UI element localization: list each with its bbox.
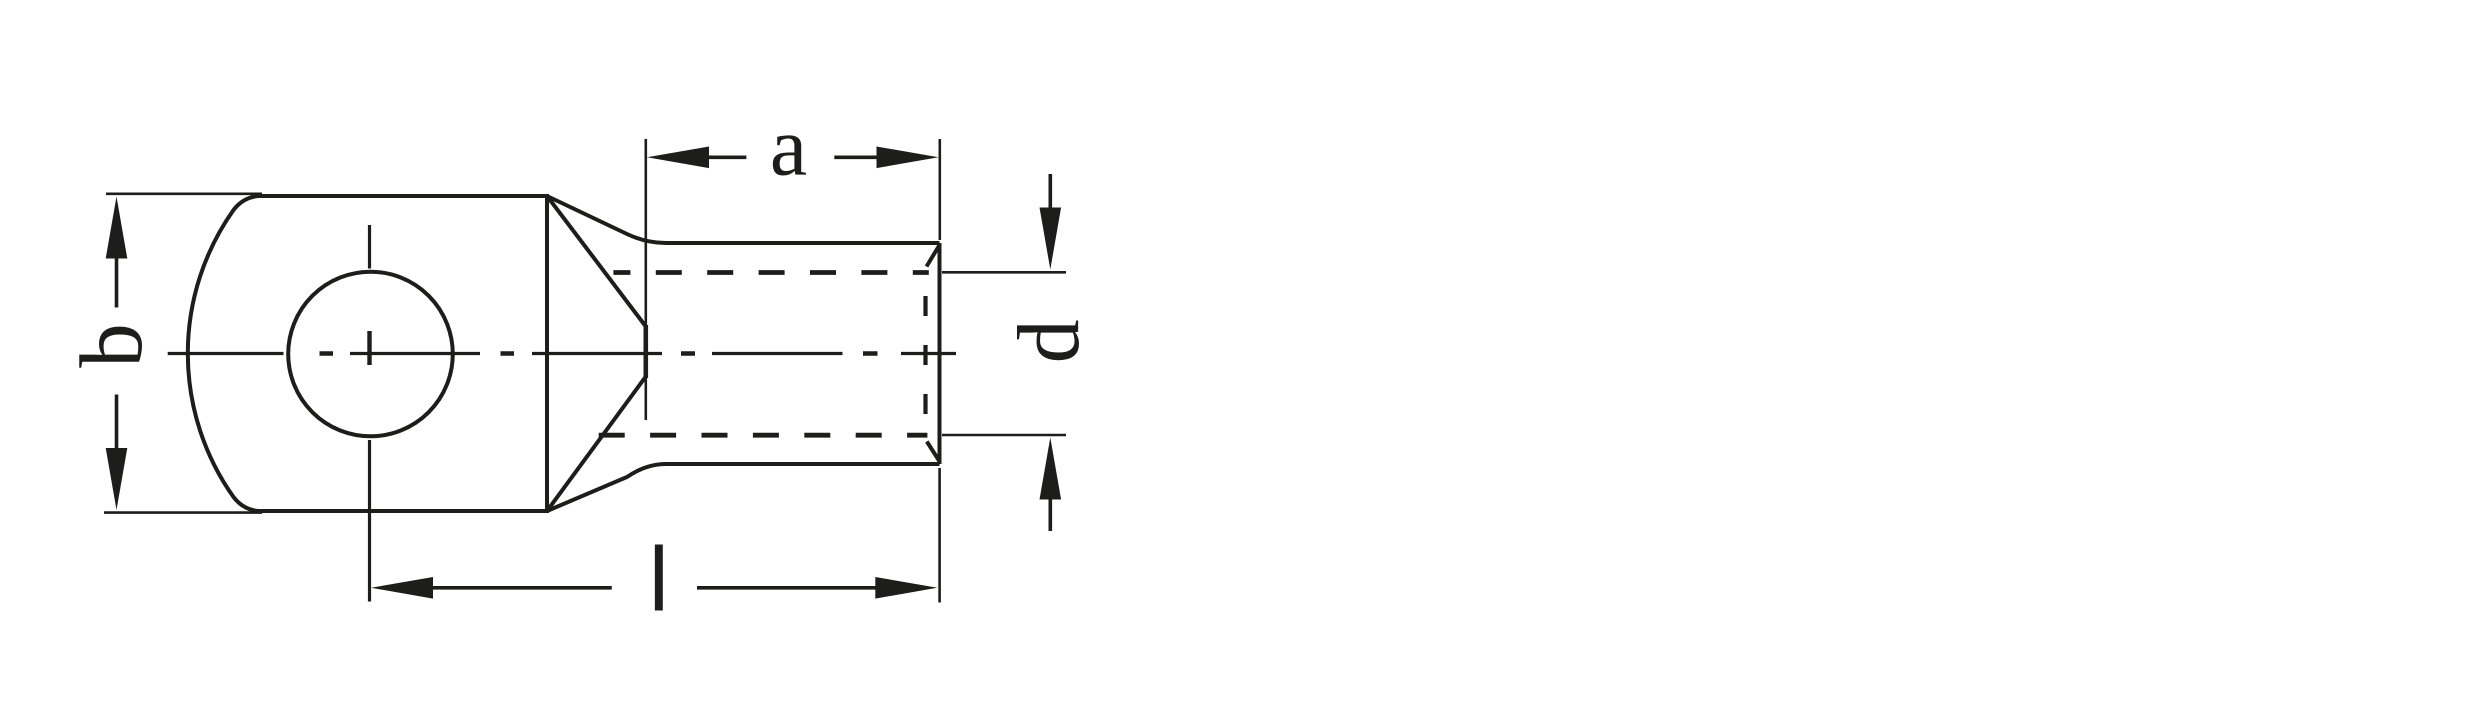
dimension l line right bbox=[697, 586, 877, 590]
centerline horizontal long dashes bbox=[168, 352, 956, 355]
dimension d arrow top shaft bbox=[1049, 174, 1053, 209]
centerline vertical through hole bbox=[368, 225, 371, 602]
dimension b line upper bbox=[115, 257, 119, 308]
centerline horizontal short dashes bbox=[320, 351, 878, 356]
hole center cross dash bbox=[367, 331, 371, 365]
dimension b extension bottom bbox=[104, 511, 262, 514]
bore hidden line bottom bbox=[599, 433, 928, 438]
dimension b arrow down bbox=[106, 448, 128, 510]
bolt hole circle bbox=[288, 272, 453, 437]
dimension a arrow right bbox=[877, 147, 939, 169]
barrel bottom outline bbox=[547, 464, 940, 511]
svg-text:l: l bbox=[649, 530, 669, 631]
dimension l arrow right bbox=[875, 577, 937, 599]
end chamfer hidden bottom bbox=[927, 442, 940, 462]
dimension a extension right bbox=[938, 139, 941, 240]
dimension d arrow top head bbox=[1040, 208, 1062, 270]
dimension l arrow left bbox=[371, 577, 433, 599]
svg-text:d: d bbox=[1001, 319, 1098, 363]
dimension a line right bbox=[834, 156, 878, 160]
barrel top outline bbox=[547, 196, 940, 243]
dimension a arrow left bbox=[647, 147, 709, 169]
dimension l extension right bbox=[938, 468, 941, 603]
dimension d arrow bottom head bbox=[1040, 438, 1062, 500]
dimension d arrow bottom shaft bbox=[1049, 497, 1053, 531]
ring palm outline bbox=[188, 196, 547, 511]
svg-text:b: b bbox=[63, 323, 161, 368]
dimension b extension top bbox=[106, 193, 262, 196]
cone bottom edge bbox=[547, 377, 646, 512]
dimension d extension bottom bbox=[942, 434, 1066, 437]
end chamfer hidden top bbox=[927, 245, 940, 267]
dimension l line left bbox=[432, 586, 612, 590]
dimension d extension top bbox=[942, 271, 1066, 274]
dimension a line left bbox=[707, 156, 746, 160]
cone top edge bbox=[547, 196, 646, 327]
bore end hidden vertical bbox=[923, 296, 927, 414]
barrel end face bbox=[938, 243, 942, 464]
bore hidden line top bbox=[613, 270, 928, 275]
dimension b arrow up bbox=[106, 197, 128, 259]
cone apex flat bbox=[643, 325, 648, 378]
dimension a extension left bbox=[644, 139, 647, 420]
svg-text:a: a bbox=[770, 101, 807, 194]
dimension b line lower bbox=[115, 395, 119, 451]
